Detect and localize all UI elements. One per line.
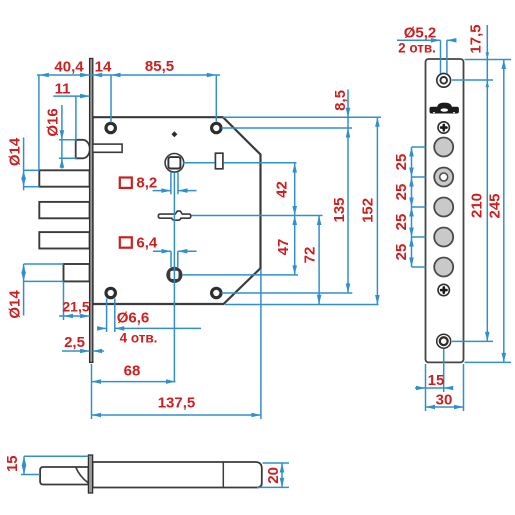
screw hole H2 (top-right) bbox=[212, 123, 221, 132]
screw hole H1 (top-left) bbox=[106, 123, 115, 132]
arrows Ø16 bbox=[60, 130, 65, 140]
key slot (wavy) bbox=[158, 211, 191, 220]
arrows Ø5,2 bbox=[431, 38, 441, 43]
arrows 47 bbox=[292, 216, 297, 226]
svg-text:47: 47 bbox=[275, 239, 292, 256]
svg-text:14: 14 bbox=[95, 59, 112, 76]
deadbolt B4 (bottom, short) bbox=[64, 264, 90, 281]
arrows 2,5 bbox=[80, 349, 90, 354]
arrows 137,5 bbox=[92, 413, 102, 418]
bottom mount hole bbox=[437, 334, 451, 348]
svg-text:Ø14: Ø14 bbox=[7, 137, 24, 166]
wire ext screw H2 right bbox=[222, 127, 353, 129]
bolt tail body bbox=[93, 462, 262, 488]
svg-text:135: 135 bbox=[331, 197, 348, 222]
svg-text:15: 15 bbox=[428, 372, 445, 389]
dim 21,5 line bbox=[59, 315, 90, 317]
svg-text:Ø14: Ø14 bbox=[7, 290, 24, 319]
wire ext bar1 left bbox=[38, 75, 40, 170]
wire ext plate bottom right bbox=[465, 361, 512, 363]
svg-text:210: 210 bbox=[469, 193, 486, 218]
arrows 42 bbox=[292, 163, 297, 173]
wire ext plate top right bbox=[465, 59, 512, 61]
faceplate strip (bottom view) bbox=[88, 455, 92, 493]
wire ext faceplate bottom bbox=[91, 364, 93, 419]
arrows 21,5 bbox=[64, 314, 74, 319]
bolt tail joint line bbox=[222, 462, 224, 488]
svg-text:6,4: 6,4 bbox=[136, 235, 158, 252]
arrows Ø6,6 bbox=[97, 326, 107, 331]
wire ext body top right bbox=[223, 116, 381, 118]
bolt hole C4 bbox=[434, 228, 453, 247]
dim chain 25 line bbox=[411, 147, 413, 267]
svg-text:85,5: 85,5 bbox=[145, 58, 174, 75]
arrows 72 bbox=[317, 216, 322, 226]
dim square 6,4 lines bbox=[170, 251, 172, 267]
screw hole H4 (bottom-right) bbox=[212, 288, 221, 297]
dim 15 bottom lines bbox=[425, 364, 427, 411]
label □8,2 bbox=[120, 175, 157, 192]
dim 8,5 / 135 line bbox=[347, 90, 349, 294]
label □6,4 bbox=[120, 235, 158, 252]
arrows 8,2 bbox=[161, 188, 171, 193]
arrows 15 bottom bbox=[416, 386, 426, 391]
svg-text:21,5: 21,5 bbox=[62, 299, 89, 315]
arrows 8,5 bbox=[346, 108, 351, 118]
svg-text:2,5: 2,5 bbox=[64, 334, 85, 351]
svg-text:25: 25 bbox=[393, 154, 410, 171]
screw S2 (cross) bbox=[438, 284, 449, 295]
latch tail inside body bbox=[93, 144, 123, 152]
svg-text:11: 11 bbox=[55, 81, 71, 98]
svg-text:25: 25 bbox=[393, 184, 410, 201]
svg-text:152: 152 bbox=[360, 198, 377, 223]
bolt hole C3 bbox=[434, 198, 453, 217]
wire ext bottom hole right bbox=[452, 340, 493, 342]
arrows Ø14 bottom bbox=[21, 264, 26, 274]
svg-text:15: 15 bbox=[4, 455, 21, 472]
dim Ø5,2 lines bbox=[440, 40, 442, 73]
wire ext body bottom right bbox=[225, 304, 379, 306]
arrows 6,4 bbox=[162, 249, 172, 254]
bolt hole C5 bbox=[434, 258, 453, 277]
arrows 11 bbox=[80, 94, 90, 99]
svg-text:Ø6,6: Ø6,6 bbox=[117, 310, 150, 327]
arrows 68 bbox=[92, 379, 102, 384]
wire ext screw H4 right bbox=[222, 292, 353, 294]
latch bevel curve bbox=[76, 467, 88, 483]
dim square 8,2 lines bbox=[170, 172, 172, 194]
small slot right of spindle bbox=[215, 153, 223, 169]
arrows Ø14 top bbox=[21, 170, 26, 180]
wire ext key slot right bbox=[192, 215, 323, 217]
arrows chain 25 bbox=[409, 147, 414, 157]
svg-text:8,5: 8,5 bbox=[332, 90, 349, 111]
spindle square hole 8,2 bbox=[168, 157, 180, 168]
bolt hole C1 bbox=[434, 138, 453, 157]
dim 72 line bbox=[318, 216, 320, 305]
dim 15 (bottom view) lines bbox=[24, 455, 88, 457]
faceplate strip (side view) bbox=[90, 59, 93, 363]
arrows 135 bbox=[346, 128, 351, 138]
dim Ø6,6 lines bbox=[106, 299, 108, 333]
svg-text:72: 72 bbox=[302, 247, 319, 264]
svg-text:17,5: 17,5 bbox=[468, 24, 485, 53]
wire ext spindle center right bbox=[183, 162, 215, 164]
dim 20 lines bbox=[263, 462, 290, 464]
wire ext screw H1 bbox=[110, 75, 112, 123]
svg-text:40,4: 40,4 bbox=[54, 59, 84, 76]
deadbolt B1 bbox=[39, 170, 89, 186]
screw hole H3 (bottom-left) bbox=[106, 288, 115, 297]
wire ext hole1 center right bbox=[452, 79, 493, 81]
arrows top chain bbox=[39, 73, 49, 78]
dim 17,5 / 210 line bbox=[486, 25, 488, 341]
dim 30 lines bbox=[463, 364, 465, 411]
svg-text:25: 25 bbox=[393, 244, 410, 261]
dim 137,5 line bbox=[92, 414, 261, 416]
screw S1 (cross) bbox=[438, 122, 449, 133]
arrows 17,5 bbox=[486, 52, 489, 59]
svg-text:137,5: 137,5 bbox=[158, 395, 196, 412]
svg-text:Ø5,2: Ø5,2 bbox=[404, 25, 437, 42]
node axis line bbox=[173, 172, 175, 381]
bolt hole C2 (with center) bbox=[434, 168, 453, 187]
wire ext latch tangent bbox=[75, 96, 77, 140]
dim 245 line bbox=[503, 60, 505, 363]
svg-text:245: 245 bbox=[487, 193, 504, 218]
wire ext body right bottom bbox=[260, 269, 262, 419]
logo stamp bbox=[437, 103, 452, 107]
wire ext hole 6,4 right bbox=[183, 274, 298, 276]
latch pin bbox=[40, 467, 88, 485]
spindle hub circle bbox=[165, 154, 184, 173]
dim 68 line bbox=[92, 381, 176, 383]
pilot hole (diamond) bbox=[171, 131, 177, 137]
dim Ø16 line bbox=[61, 105, 63, 169]
dim Ø14 bottom line bbox=[23, 264, 25, 316]
dim Ø14 top line bbox=[23, 138, 25, 191]
svg-text:8,2: 8,2 bbox=[136, 175, 157, 192]
arrows 20 bbox=[280, 463, 285, 473]
arrows 210 bbox=[485, 332, 490, 342]
top mount hole Ø5,2 bbox=[437, 73, 451, 87]
svg-text:42: 42 bbox=[274, 181, 291, 198]
svg-text:68: 68 bbox=[124, 363, 141, 380]
dim 152 line bbox=[376, 117, 378, 304]
svg-text:30: 30 bbox=[436, 392, 453, 409]
arrows 15 bottom view bbox=[22, 456, 27, 466]
square hole 6,4 (ring) bbox=[166, 267, 182, 283]
svg-text:Ø16: Ø16 bbox=[45, 108, 62, 136]
deadbolt B3 bbox=[39, 232, 89, 248]
svg-text:2 отв.: 2 отв. bbox=[398, 41, 436, 56]
svg-text:4 отв.: 4 отв. bbox=[120, 331, 158, 346]
latch bolt (D-shape) bbox=[76, 140, 90, 159]
deadbolt B2 bbox=[39, 202, 89, 218]
svg-text:20: 20 bbox=[265, 467, 282, 484]
arrows 30 bbox=[426, 405, 436, 410]
wire ext screw H2 bbox=[215, 75, 217, 122]
arrows 152 bbox=[375, 117, 380, 127]
lock body outline (side view) bbox=[93, 117, 261, 304]
dim 11 line bbox=[53, 95, 89, 97]
faceplate front view plate bbox=[426, 59, 464, 362]
dim 42 / 47 line bbox=[294, 163, 296, 275]
wire ext latch top/bottom bbox=[59, 139, 77, 141]
dim chain 40,4 / 14 / 85,5 line bbox=[37, 74, 220, 76]
svg-text:25: 25 bbox=[393, 214, 410, 231]
arrows 245 bbox=[502, 60, 507, 70]
dim 2,5 line bbox=[62, 350, 90, 352]
